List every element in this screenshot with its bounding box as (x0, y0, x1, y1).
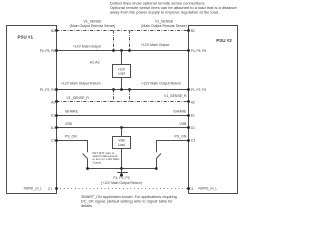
svg-text:(+12V Main Output Return): (+12V Main Output Return) (101, 181, 142, 185)
svg-text:SMART_ON application shown. Fo: SMART_ON application shown. For applicat… (81, 195, 177, 199)
wire sense drop right dash-dot (129, 31, 131, 51)
switch SW2 blade (156, 154, 161, 159)
pin D1 PSU1 (55, 126, 58, 129)
junction sense-right on +12V (128, 49, 131, 52)
svg-text:PS_ON: PS_ON (175, 135, 187, 139)
wire VSB load bottom stub (121, 149, 123, 169)
svg-text:Load: Load (118, 143, 125, 147)
svg-text:Load: Load (118, 72, 125, 76)
wire SW1 bottom stub (87, 158, 89, 168)
svg-text:ISHARE: ISHARE (173, 110, 187, 114)
svg-text:+12V Main Output: +12V Main Output (141, 43, 169, 47)
wire +12V load bottom stub (121, 78, 123, 90)
svg-text:V1_SENSE_R: V1_SENSE_R (66, 96, 89, 100)
wire ISHARE (57, 115, 189, 117)
svg-text:+12V Main Output: +12V Main Output (73, 45, 101, 49)
svg-text:P4, P5, P6: P4, P5, P6 (40, 49, 55, 53)
svg-text:D1: D1 (51, 126, 55, 130)
junction load bottom (120, 88, 123, 91)
svg-text:V1_SENSE: V1_SENSE (83, 20, 102, 24)
note top-right (110, 0, 238, 14)
wire V1_SENSE dash-dot B2 to B2 (57, 30, 189, 32)
node V1_SENSE label left (70, 20, 116, 28)
svg-text:away from the power supply to: away from the power supply to improve re… (110, 9, 219, 14)
PSU #1 box (7, 26, 57, 194)
svg-text:C3: C3 (191, 138, 195, 142)
svg-text:E1: E1 (191, 113, 195, 117)
junction sense-right on return (128, 88, 131, 91)
node V1_SENSE label right (141, 20, 187, 28)
note bottom (81, 195, 177, 208)
pin C3 PSU1 (55, 139, 58, 142)
svg-text:V1_SENSE_R: V1_SENSE_R (164, 94, 187, 98)
pin P4,P5,P6 PSU1 (55, 49, 58, 52)
wire VSB (57, 127, 189, 129)
wire SW2 bottom stub (156, 158, 158, 168)
junction SW2 on rail (155, 167, 158, 170)
svg-text:A2: A2 (51, 100, 55, 104)
svg-text:P4, P5, P6: P4, P5, P6 (191, 49, 206, 53)
wire +12V load top stub (121, 51, 123, 65)
svg-text:A1-A3: A1-A3 (90, 60, 100, 64)
svg-text:PS_ON: PS_ON (65, 135, 77, 139)
load VSB Load (113, 137, 131, 149)
pin P4,P5,P6 PSU2 (187, 49, 190, 52)
wire sense return riser left dash-dot (113, 90, 115, 102)
svg-text:B2: B2 (51, 29, 55, 33)
pin B2 PSU2 (187, 29, 190, 32)
svg-text:DC_OK signal, (default setting: DC_OK signal, (default setting) refer to… (81, 200, 173, 204)
pin C1 PSU2 (187, 187, 190, 190)
load +12V Load (113, 65, 131, 78)
wire VSB load top stub (121, 128, 123, 137)
svg-text:D1: D1 (191, 126, 195, 130)
pin D1 PSU2 (187, 126, 190, 129)
pin A2 PSU1 (55, 100, 58, 103)
svg-text:C3: C3 (51, 138, 55, 142)
pin A2 PSU2 (187, 100, 190, 103)
svg-text:+12V Main Output Return: +12V Main Output Return (61, 81, 101, 85)
svg-text:V1_SENSE: V1_SENSE (155, 20, 174, 24)
svg-text:E1: E1 (51, 113, 55, 117)
svg-text:PSU #2: PSU #2 (216, 38, 232, 43)
pin E1 PSU1 (55, 114, 58, 117)
note FET/BJT switch (93, 151, 120, 165)
PSU #2 box (189, 26, 238, 194)
svg-text:details: details (81, 204, 92, 207)
wire V1_SENSE_R dash-dot A2 to A2 (57, 101, 189, 103)
svg-text:ISHARE: ISHARE (65, 110, 79, 114)
svg-text:(Main Output Remote Sense): (Main Output Remote Sense) (70, 24, 116, 28)
junction load top (120, 49, 123, 52)
svg-text:B2: B2 (191, 29, 195, 33)
junction SW1 on rail (86, 167, 89, 170)
svg-text:P1, P2, P3: P1, P2, P3 (191, 88, 206, 92)
junction sense-left on +12V (112, 49, 115, 52)
wire PS_ON left segment (57, 141, 88, 153)
svg-text:P1, P2, P3: P1, P2, P3 (113, 176, 129, 180)
wire +12V Main Output Return (57, 89, 189, 91)
svg-text:C1: C1 (189, 187, 193, 191)
wire return rail (88, 168, 157, 170)
svg-text:C1: C1 (48, 187, 52, 191)
svg-text:VSB: VSB (65, 122, 73, 126)
svg-text:RAPID_on_L: RAPID_on_L (24, 186, 43, 190)
svg-text:RAPID_on_L: RAPID_on_L (199, 186, 218, 190)
pin C3 PSU2 (187, 139, 190, 142)
pin E1 PSU2 (187, 114, 190, 117)
wire PS_ON right segment (157, 141, 189, 153)
svg-text:Output: Output (93, 160, 102, 164)
junction center on rail (120, 167, 123, 170)
pin P1,P2,P3 PSU1 (55, 88, 58, 91)
wire RAPID_on_L dotted C1 to C1 (57, 188, 189, 190)
pin B2 PSU1 (55, 29, 58, 32)
svg-text:+12V Main Output Return: +12V Main Output Return (141, 81, 181, 85)
svg-text:VSB: VSB (179, 122, 187, 126)
svg-text:P1, P2, P3: P1, P2, P3 (40, 88, 55, 92)
terminal P1,P2,P3 return (121, 169, 123, 175)
wire sense return riser right dash-dot (129, 90, 131, 102)
svg-text:PSU #1: PSU #1 (18, 35, 34, 40)
wire +12V Main Output (57, 50, 189, 52)
junction sense-left on return (112, 88, 115, 91)
junction VSB load top (120, 126, 123, 129)
wire sense drop left dash-dot (113, 31, 115, 51)
pin P1,P2,P3 PSU2 (187, 88, 190, 91)
svg-text:(Main Output Remote Sense): (Main Output Remote Sense) (141, 24, 187, 28)
svg-text:A2: A2 (191, 100, 195, 104)
switch SW1 blade (83, 154, 88, 159)
pin C1 PSU1 (55, 187, 58, 190)
